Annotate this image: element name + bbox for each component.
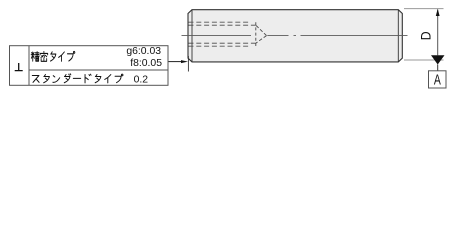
kana イ xyxy=(105,75,111,83)
kana ー xyxy=(73,77,80,79)
svg-text:0.2: 0.2 xyxy=(134,75,149,86)
kana タ xyxy=(51,52,56,61)
kana ド xyxy=(85,74,91,83)
kana プ xyxy=(115,74,123,83)
hidden drill hole lines (black dashed) xyxy=(189,25,256,43)
datum box A xyxy=(429,71,447,88)
dimension line D xyxy=(437,10,439,56)
kana タ xyxy=(44,74,50,82)
top extension line xyxy=(404,8,444,10)
hidden thread major lines (grey dashed) xyxy=(189,22,251,46)
svg-text:D: D xyxy=(418,31,434,40)
dimension top arrow xyxy=(436,9,440,16)
table symbol cell divider xyxy=(28,46,30,86)
kana ン xyxy=(53,76,60,83)
leader arrowhead xyxy=(181,60,188,63)
kana プ xyxy=(67,51,74,61)
bottom extension line xyxy=(404,59,444,61)
kana ス xyxy=(32,76,39,83)
datum leader xyxy=(437,65,439,71)
dowel pin body (chamfered cylinder side view) xyxy=(188,10,402,62)
svg-text:f8:0.05: f8:0.05 xyxy=(130,58,162,69)
kana タ xyxy=(95,74,101,82)
kanji 精 xyxy=(31,52,39,61)
tolerance table outer box xyxy=(10,46,169,86)
datum triangle xyxy=(431,55,445,64)
leader line from table xyxy=(168,61,182,63)
left face extension line xyxy=(187,56,189,72)
hidden hole end vertical xyxy=(255,22,257,46)
kana イ xyxy=(59,52,65,61)
centerline (chain line) xyxy=(182,35,408,37)
kanji 密 xyxy=(40,52,48,62)
left chamfer edge line xyxy=(191,10,193,62)
svg-text:A: A xyxy=(434,72,441,88)
kana ダ xyxy=(64,74,71,83)
perpendicularity symbol xyxy=(15,63,23,71)
table row divider xyxy=(29,69,168,71)
hidden drill point cone xyxy=(256,25,267,43)
right chamfer edge line xyxy=(397,10,399,62)
svg-text:g6:0.03: g6:0.03 xyxy=(126,46,161,57)
